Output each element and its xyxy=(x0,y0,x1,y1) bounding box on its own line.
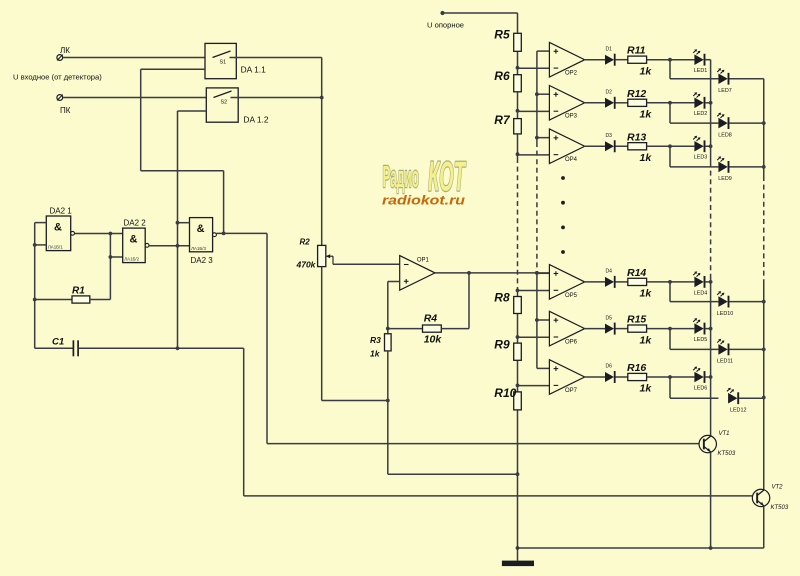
svg-text:R7: R7 xyxy=(494,113,511,127)
svg-text:VT2: VT2 xyxy=(772,485,784,491)
svg-text:U входное (от детектора): U входное (от детектора) xyxy=(13,73,102,82)
svg-text:DA2 3: DA2 3 xyxy=(191,256,214,265)
svg-text:R5: R5 xyxy=(494,28,510,42)
svg-text:LED11: LED11 xyxy=(717,359,733,365)
svg-text:D6: D6 xyxy=(606,364,613,370)
svg-text:&: & xyxy=(129,234,137,246)
svg-text:DA 1.1: DA 1.1 xyxy=(241,65,266,75)
svg-text:1k: 1k xyxy=(640,152,653,164)
svg-text:&: & xyxy=(54,222,62,234)
svg-text:DA 1.2: DA 1.2 xyxy=(243,115,268,125)
svg-text:LED2: LED2 xyxy=(694,111,708,117)
svg-text:1k: 1k xyxy=(640,109,653,121)
svg-text:C1: C1 xyxy=(52,337,64,348)
svg-text:LED8: LED8 xyxy=(718,132,732,138)
svg-text:OP6: OP6 xyxy=(565,340,578,346)
svg-text:LED1: LED1 xyxy=(694,68,708,74)
svg-text:LED7: LED7 xyxy=(718,88,732,94)
svg-text:R3: R3 xyxy=(370,335,381,345)
svg-text:KT503: KT503 xyxy=(771,505,789,511)
svg-text:OP1: OP1 xyxy=(417,257,430,263)
svg-text:OP5: OP5 xyxy=(565,293,578,299)
svg-text:LED10: LED10 xyxy=(717,311,733,317)
svg-text:R4: R4 xyxy=(424,313,438,325)
svg-text:ПК: ПК xyxy=(60,106,71,115)
svg-text:DA2 2: DA2 2 xyxy=(124,219,147,228)
svg-text:10k: 10k xyxy=(424,334,443,346)
svg-text:OP3: OP3 xyxy=(565,114,578,120)
svg-text:R15: R15 xyxy=(627,314,646,326)
svg-text:R11: R11 xyxy=(627,45,646,57)
svg-text:Радио: Радио xyxy=(383,159,420,194)
svg-text:ЛА1Б/3: ЛА1Б/3 xyxy=(191,246,206,251)
svg-text:LED6: LED6 xyxy=(694,385,708,391)
svg-text:R12: R12 xyxy=(627,88,646,100)
svg-text:R9: R9 xyxy=(494,337,510,351)
svg-text:R13: R13 xyxy=(627,131,646,143)
svg-text:ЛА1Б/2: ЛА1Б/2 xyxy=(124,257,139,262)
svg-text:S1: S1 xyxy=(220,60,227,66)
svg-text:D5: D5 xyxy=(606,315,613,321)
svg-text:R6: R6 xyxy=(494,69,510,83)
svg-text:R16: R16 xyxy=(627,362,646,374)
svg-text:1k: 1k xyxy=(640,383,653,395)
svg-text:OP7: OP7 xyxy=(565,388,578,394)
svg-text:D3: D3 xyxy=(606,133,613,139)
svg-text:&: & xyxy=(197,223,205,235)
svg-text:LED12: LED12 xyxy=(730,408,746,414)
svg-text:1k: 1k xyxy=(640,288,653,300)
svg-text:U опорное: U опорное xyxy=(427,21,464,30)
svg-text:D4: D4 xyxy=(606,269,613,275)
svg-text:D1: D1 xyxy=(606,46,613,52)
svg-text:R1: R1 xyxy=(72,286,85,297)
svg-text:R10: R10 xyxy=(494,386,516,400)
svg-text:OP2: OP2 xyxy=(565,71,578,77)
svg-text:VT1: VT1 xyxy=(719,431,730,437)
svg-text:1k: 1k xyxy=(640,65,653,77)
svg-text:KT503: KT503 xyxy=(718,451,736,457)
svg-text:R14: R14 xyxy=(627,267,646,279)
svg-text:1k: 1k xyxy=(370,349,381,359)
svg-text:OP4: OP4 xyxy=(565,157,578,163)
svg-text:LED9: LED9 xyxy=(718,176,732,182)
svg-text:ЛК: ЛК xyxy=(60,46,70,55)
svg-text:radiokot.ru: radiokot.ru xyxy=(382,193,465,207)
svg-text:ЛА1Б/1: ЛА1Б/1 xyxy=(48,245,63,250)
svg-text:D2: D2 xyxy=(606,90,613,96)
svg-text:LED4: LED4 xyxy=(694,290,708,296)
svg-text:470k: 470k xyxy=(296,260,317,270)
svg-text:LED3: LED3 xyxy=(694,155,708,161)
svg-text:LED5: LED5 xyxy=(694,337,708,343)
svg-text:R2: R2 xyxy=(300,238,311,247)
svg-text:S2: S2 xyxy=(221,100,228,106)
svg-text:R8: R8 xyxy=(494,291,510,305)
svg-text:1k: 1k xyxy=(640,334,653,346)
svg-text:DA2 1: DA2 1 xyxy=(50,207,73,216)
